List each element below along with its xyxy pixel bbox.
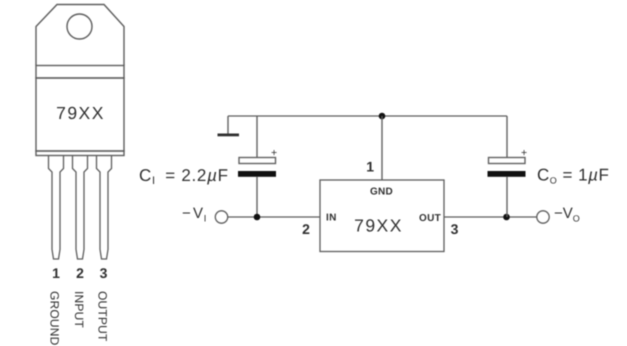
svg-text:−VI: −VI bbox=[182, 205, 206, 225]
svg-text:2: 2 bbox=[302, 221, 310, 237]
regulator U2 79XX box bbox=[320, 180, 444, 252]
svg-text:3: 3 bbox=[100, 265, 108, 281]
wire input bbox=[228, 216, 320, 218]
package mounting hole bbox=[67, 14, 92, 39]
svg-text:79XX: 79XX bbox=[56, 103, 105, 123]
svg-text:GND: GND bbox=[370, 187, 393, 198]
package neck band bbox=[36, 66, 124, 79]
svg-text:CO = 1µF: CO = 1µF bbox=[537, 166, 609, 186]
wire top rail bbox=[228, 115, 507, 117]
regulator package U1 (TO-220 front view) tab outline bbox=[36, 5, 124, 66]
capacitor CO bbox=[488, 116, 528, 217]
node dot output bbox=[503, 214, 510, 221]
svg-text:OUTPUT: OUTPUT bbox=[96, 291, 110, 342]
ground bbox=[218, 116, 240, 136]
svg-text:2: 2 bbox=[76, 265, 84, 281]
wire GND pin 1 bbox=[381, 116, 383, 180]
node dot input bbox=[254, 214, 261, 221]
package bottom flange bbox=[36, 151, 124, 156]
svg-text:OUT: OUT bbox=[419, 213, 441, 224]
svg-text:3: 3 bbox=[451, 221, 459, 237]
svg-text:79XX: 79XX bbox=[354, 216, 403, 236]
svg-text:IN: IN bbox=[326, 213, 337, 224]
wire output bbox=[444, 216, 537, 218]
capacitor CI bbox=[238, 116, 277, 217]
pin 1 leg bbox=[49, 156, 64, 260]
svg-text:INPUT: INPUT bbox=[72, 291, 86, 328]
svg-text:GROUND: GROUND bbox=[48, 291, 62, 346]
svg-text:1: 1 bbox=[52, 265, 60, 281]
terminal -VI circle bbox=[215, 211, 227, 223]
svg-text:+: + bbox=[521, 147, 527, 159]
package body bbox=[36, 78, 124, 151]
terminal -VO circle bbox=[537, 211, 549, 223]
svg-text:1: 1 bbox=[366, 159, 374, 175]
pin 3 leg bbox=[97, 156, 112, 260]
svg-text:+: + bbox=[271, 147, 277, 159]
pin 2 leg bbox=[73, 156, 88, 260]
node dot top (junction above GND pin) bbox=[379, 113, 386, 120]
